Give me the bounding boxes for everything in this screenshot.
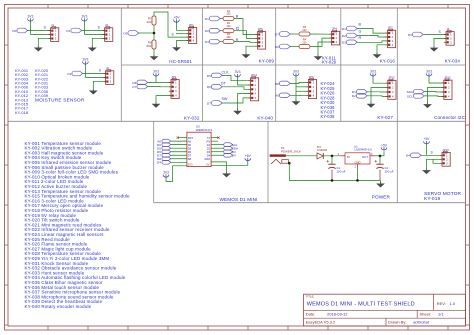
wire pin4 to gnd KY-016 [377, 45, 388, 54]
junction node HC-SR501 [153, 32, 156, 35]
title block Date [306, 311, 349, 316]
wire port to pin1 servo [421, 154, 442, 156]
port D1 KY-016 [342, 26, 357, 31]
svg-text:1N4004: 1N4004 [317, 148, 328, 152]
wire 3V3 down KY-032 [155, 76, 157, 83]
wire 3V3 down KY-024 [295, 76, 297, 101]
header JP7 KY-016 [385, 26, 395, 48]
port D6 KY-011 [275, 44, 290, 49]
label R3 150 [226, 33, 231, 39]
svg-text:IN: IN [347, 155, 350, 159]
header JP11 KY-040 [248, 73, 258, 101]
wire port to R1 [220, 18, 223, 20]
wire R4 to pin2 [310, 38, 332, 46]
svg-text:3V3: 3V3 [235, 70, 241, 74]
wire RST stub [178, 137, 187, 139]
svg-text:JP13: JP13 [444, 76, 451, 80]
capacitor C2 [375, 160, 384, 169]
port D7 KY-032 [132, 84, 147, 89]
svg-text:D5: D5 [188, 146, 192, 150]
wire D6 to R4 [290, 46, 299, 48]
svg-text:POWER_JACK: POWER_JACK [281, 150, 301, 154]
svg-text:JP10: JP10 [442, 148, 449, 152]
wire D6 to pin1 [148, 81, 172, 83]
power flag 3V3 U3 [163, 171, 169, 178]
svg-text:Drawn By:: Drawn By: [388, 320, 406, 325]
wire 3V3 J2 [84, 64, 86, 78]
svg-text:3V3: 3V3 [163, 171, 169, 175]
svg-text:2K2: 2K2 [147, 20, 152, 24]
svg-text:D7: D7 [275, 32, 279, 36]
title block Sheet [420, 311, 445, 316]
ground POWER [376, 182, 385, 188]
svg-text:JP7: JP7 [388, 26, 393, 30]
label SERVO MOTOR KY-019 [424, 191, 462, 202]
wire D7 to pin2 [148, 86, 172, 88]
wire U1 gnd [357, 169, 359, 181]
svg-text:KY-027: KY-027 [377, 115, 393, 120]
port D0 [12, 28, 27, 33]
svg-text:J3: J3 [105, 23, 108, 27]
port D3 KY-009 [205, 39, 220, 44]
svg-text:+5V: +5V [174, 16, 181, 20]
wire 3V3 to pin2 [238, 77, 251, 86]
label D4 1N4004 [317, 145, 328, 152]
svg-text:D6: D6 [188, 150, 192, 154]
svg-text:GND: GND [204, 157, 210, 161]
svg-text:D1: D1 [207, 143, 211, 147]
connector P1 power jack [270, 154, 289, 164]
resistor R3 [223, 40, 234, 44]
svg-text:D5: D5 [123, 31, 127, 35]
port D5 HC-SR501 [123, 31, 138, 36]
ground KY-011 [314, 55, 323, 61]
ground servo [422, 169, 431, 175]
label C1 100uF [337, 166, 346, 174]
svg-text:D7: D7 [207, 101, 211, 105]
svg-text:5V: 5V [206, 163, 209, 167]
svg-text:A0: A0 [275, 94, 279, 98]
svg-text:KY-034: KY-034 [445, 59, 461, 64]
svg-text:3V3: 3V3 [293, 69, 299, 73]
svg-text:3V3: 3V3 [27, 14, 33, 18]
wire pin3 to gnd J3 [92, 38, 104, 46]
label C2 100uF [385, 166, 394, 174]
svg-text:HC-SR501: HC-SR501 [169, 59, 192, 64]
svg-text:D1: D1 [342, 27, 346, 31]
wire pin4 to gnd HC-SR501 [177, 41, 189, 47]
svg-text:D4: D4 [406, 154, 410, 158]
wire D2 to pin4 KY-027 [367, 95, 388, 98]
node list moisture sensor KY numbers [15, 68, 85, 115]
svg-text:D3: D3 [342, 41, 346, 45]
wire D0 to pin1 J1 [28, 30, 51, 32]
svg-text:+5V: +5V [381, 143, 388, 147]
svg-text:WEMOS D1: WEMOS D1 [196, 128, 213, 132]
svg-text:100 uF: 100 uF [385, 170, 394, 174]
port D3 KY-016 [342, 40, 357, 45]
header JP13 I2C [442, 76, 452, 100]
port D6 KY-032 [132, 80, 147, 85]
svg-text:GND: GND [355, 160, 361, 164]
wire G to pin2 KY-016 [357, 36, 388, 38]
port D7 KY-011 [275, 32, 290, 37]
resistor R1 [223, 17, 234, 21]
big section boxes wemos power servo [154, 121, 466, 202]
wire SCL to pin4 [424, 95, 444, 98]
wire C1 to rail [331, 170, 333, 181]
port D1 [66, 28, 81, 33]
ground HC-SR501 right [172, 46, 181, 52]
op-amp U3 body [187, 132, 211, 166]
port D0 KY-024 [275, 81, 290, 86]
port D3 KY-034 [408, 32, 423, 37]
svg-text:JP12: JP12 [388, 76, 395, 80]
ground KY-024 [292, 100, 301, 106]
port D2 KY-016 [342, 33, 357, 38]
svg-text:D5: D5 [207, 74, 211, 78]
svg-text:KY-029: KY-029 [322, 60, 337, 65]
svg-text:D6: D6 [275, 45, 279, 49]
svg-text:R: R [236, 38, 239, 42]
wire CLK to pin1 [222, 75, 251, 80]
header JP10 servo [440, 148, 450, 166]
svg-text:D0: D0 [188, 143, 192, 147]
svg-text:EasyEDA V5.3.2: EasyEDA V5.3.2 [306, 320, 336, 325]
header J2 [103, 66, 113, 84]
svg-text:WEMOS D1 MINI: WEMOS D1 MINI [219, 197, 257, 202]
port D5 KY-040 [207, 73, 222, 78]
ground KY-009 [242, 53, 251, 59]
wire D2 to pin1 J2 [83, 73, 106, 75]
svg-text:OUT: OUT [362, 155, 368, 159]
header JP1 HC-SR501 [186, 23, 196, 44]
svg-text:KY-018: KY-018 [15, 110, 28, 115]
svg-text:KY-019: KY-019 [424, 196, 440, 202]
junction C2 top [379, 155, 382, 158]
resistor R2 [223, 29, 234, 33]
diode D4 [317, 153, 323, 159]
wire pin3 to gnd J1 [38, 38, 50, 46]
wire to C2 [379, 156, 381, 164]
header JP5 KY-009 [255, 27, 265, 49]
label R2 100 [226, 22, 231, 28]
ground KY-034 [430, 46, 439, 52]
node list KY-024 group [321, 81, 336, 119]
wire pin4 to gnd KY-009 [246, 46, 258, 53]
ground J2 [89, 89, 98, 95]
wire 3V3 to pin1 KY-027 [373, 76, 388, 84]
header J1 [48, 23, 58, 41]
wire SW to pin5 [222, 98, 251, 103]
port D2 KY-009 [205, 28, 220, 33]
svg-text:3V3: 3V3 [82, 57, 88, 61]
power flag +5V HC-SR501 [174, 16, 181, 23]
wire port to pin1 KY-034 [424, 34, 447, 36]
port SDA [407, 89, 425, 94]
ground J1 [34, 46, 43, 52]
ground KY-040 [233, 109, 242, 115]
wire pin2 J2 [85, 76, 105, 78]
wire TX stub [211, 137, 218, 139]
section grid lines [8, 8, 466, 121]
svg-text:KY-032: KY-032 [184, 116, 200, 121]
label U1 LM2940P-5.0 [354, 145, 372, 152]
svg-text:1/1: 1/1 [438, 311, 444, 316]
wire pin2 to gnd KY-034 [434, 38, 446, 47]
wire port to R3 [220, 41, 223, 43]
svg-text:D0: D0 [275, 82, 279, 86]
junction C1 top [331, 155, 334, 158]
svg-text:JP4: JP4 [332, 27, 337, 31]
wire ground rail [289, 179, 380, 181]
port D2 [67, 71, 82, 76]
svg-text:TX: TX [207, 136, 211, 140]
svg-text:Date:: Date: [306, 311, 316, 316]
ports U3 left [157, 139, 187, 164]
ground U3 [222, 172, 231, 178]
svg-text:100: 100 [226, 25, 231, 28]
svg-text:3V3: 3V3 [370, 69, 376, 73]
svg-text:KY-038: KY-038 [321, 114, 336, 119]
svg-text:KY-040: KY-040 [257, 116, 273, 121]
svg-text:D4: D4 [207, 153, 211, 157]
port D4 servo [406, 153, 421, 158]
wire pin2 to gnd servo [427, 159, 443, 169]
svg-text:LM2940P-5.0: LM2940P-5.0 [355, 148, 373, 152]
svg-text:3V3: 3V3 [153, 69, 159, 73]
header JP12 KY-027 [386, 76, 396, 100]
wire jack to diode [286, 155, 317, 157]
wire D1 to pin1 J3 [82, 30, 105, 32]
wire +5V riser [383, 151, 385, 156]
wire pin2 KY-024 [296, 86, 308, 88]
svg-text:100: 100 [226, 13, 231, 16]
power flag 3V3 KY-040 [235, 70, 241, 77]
svg-text:D2: D2 [342, 34, 346, 38]
port A0 KY-024 [275, 93, 290, 98]
wire diode to U1 [323, 155, 340, 157]
wire C2 to rail [379, 170, 381, 181]
svg-text:100 uF: 100 uF [337, 170, 346, 174]
svg-text:JP2: JP2 [171, 75, 176, 79]
wire pin2 to gnd KY-027 [371, 88, 388, 103]
svg-text:D0: D0 [12, 29, 16, 33]
power flag +5V POWER [381, 143, 388, 150]
header J4 KY-034 [444, 27, 454, 45]
svg-text:DT: DT [221, 82, 227, 86]
wire DT to pin3 [222, 87, 251, 90]
wire pin3 to gnd J2 [93, 81, 105, 89]
label R4 220 [302, 38, 307, 44]
wire pin3 KY-024 [296, 90, 308, 92]
header JP2 KY-032 [169, 75, 179, 99]
port D6 KY-040 [207, 85, 222, 90]
svg-text:POWER: POWER [372, 195, 391, 200]
header JP6 KY-024 [306, 75, 316, 99]
svg-text:A0: A0 [188, 139, 192, 143]
svg-text:3V3: 3V3 [188, 163, 193, 167]
pin names U3 [188, 136, 211, 167]
svg-text:D7: D7 [188, 153, 192, 157]
ground KY-016 [373, 53, 382, 59]
svg-text:JP6: JP6 [309, 75, 314, 79]
wire R7 top to header [154, 12, 189, 37]
svg-text:D8: D8 [188, 157, 192, 161]
ground KY-032 [152, 102, 161, 108]
regulator U1 [338, 153, 375, 169]
ports U3 right [211, 143, 238, 158]
svg-text:D7: D7 [132, 85, 136, 89]
svg-text:D4: D4 [232, 154, 236, 158]
svg-text:SW: SW [222, 97, 228, 101]
svg-text:WEMOS D1 MINI - MULTI TEST SHI: WEMOS D1 MINI - MULTI TEST SHIELD [307, 302, 415, 308]
svg-text:JP11: JP11 [251, 73, 258, 77]
port D1 KY-027 [352, 90, 367, 95]
wire RX stub [211, 140, 218, 142]
svg-text:D3: D3 [207, 150, 211, 154]
svg-text:CLK: CLK [222, 71, 230, 75]
wire pin2 to gnd I2C [428, 88, 444, 104]
wire rail to gnd [380, 180, 382, 183]
header JP4 KY-011 [329, 27, 339, 45]
wire pin4 to gnd KY-032 [156, 96, 171, 103]
svg-text:D3: D3 [205, 40, 209, 44]
svg-text:adrirobot: adrirobot [413, 320, 430, 325]
wire R to pin3 [234, 41, 258, 44]
wire D5 to node [139, 32, 155, 34]
svg-text:TITLE:: TITLE: [306, 295, 315, 299]
svg-text:+5V: +5V [424, 137, 431, 141]
label R6 8K2 [147, 41, 152, 49]
svg-text:D2: D2 [205, 29, 209, 33]
svg-text:1.0: 1.0 [450, 301, 456, 306]
port SCL [407, 94, 424, 99]
wire A0 to pin4 [290, 94, 308, 96]
no-connect x TX [217, 136, 219, 138]
wire R7-R6 node [153, 25, 155, 40]
svg-text:D2: D2 [67, 72, 71, 76]
power flag 3V3 J1 [27, 14, 33, 21]
label R5 220 [302, 26, 307, 32]
power flag 3V3 J3 [81, 14, 87, 21]
power flag 3V3 J2 [82, 57, 88, 64]
wire GND U3 [211, 162, 226, 173]
wire 3V3 J3 [83, 21, 85, 35]
svg-text:JP5: JP5 [258, 27, 263, 31]
svg-text:220: 220 [302, 41, 307, 44]
no-connect x RST [177, 136, 179, 138]
svg-text:2018-03-12: 2018-03-12 [327, 311, 348, 316]
svg-text:KY-009: KY-009 [259, 59, 275, 64]
wire pin2 J3 [84, 33, 104, 35]
svg-text:J1: J1 [51, 23, 54, 27]
svg-text:D4: D4 [157, 161, 161, 165]
svg-text:G: G [359, 29, 362, 33]
wire R6 to gnd [153, 49, 155, 56]
node list KY module descriptions [25, 141, 131, 309]
title block REV [437, 301, 456, 306]
svg-text:KY-040 Rotary encoder module: KY-040 Rotary encoder module [25, 304, 92, 309]
svg-text:SCL: SCL [407, 94, 413, 98]
svg-text:J4: J4 [446, 27, 449, 31]
power flag +5V U3 [245, 154, 252, 161]
svg-text:+5V: +5V [245, 154, 252, 158]
wire SDA to pin3 [424, 91, 444, 93]
wire D0 to pin1 [290, 82, 308, 83]
wire +5V servo [426, 144, 428, 156]
svg-text:R: R [359, 36, 362, 40]
title block frame [304, 294, 466, 326]
wire B to pin1 [234, 19, 258, 35]
svg-text:D1: D1 [66, 29, 70, 33]
ground J3 [88, 46, 97, 52]
ground I2C [423, 103, 432, 109]
ground KY-027 [367, 102, 376, 108]
svg-text:D2: D2 [352, 94, 356, 98]
svg-text:JP1: JP1 [189, 23, 194, 27]
junction rail C1 [331, 179, 334, 182]
wire S to pin2 [176, 33, 189, 35]
wire G to pin2 [234, 31, 258, 39]
wire 3V3 J1 [29, 21, 31, 35]
wire R5 to pin1 [310, 33, 332, 35]
wire D7 to R5 [290, 33, 299, 35]
power flag 3V3 KY-032 [153, 69, 159, 76]
svg-text:Connector I2C: Connector I2C [434, 115, 466, 120]
wire to C1 [331, 156, 333, 164]
power flag 3V3 I2C [426, 69, 432, 76]
wire 3V3 U3 [166, 166, 187, 182]
wire pin3 to gnd KY-011 [318, 42, 332, 56]
junction jack bottom [288, 162, 291, 165]
wire U1 out [375, 155, 384, 157]
label KY-011 KY-029 [322, 55, 337, 64]
svg-text:D3: D3 [408, 33, 412, 37]
svg-text:KY-016: KY-016 [380, 59, 396, 64]
svg-text:Sheet:: Sheet: [420, 311, 432, 316]
svg-text:3V3: 3V3 [81, 14, 87, 18]
svg-text:3V3: 3V3 [426, 69, 432, 73]
ground R6 [150, 55, 159, 61]
svg-text:RST: RST [188, 136, 194, 140]
capacitor C1 [327, 160, 336, 169]
wire B to pin1 KY-016 [357, 29, 388, 34]
wire R to pin3 KY-016 [357, 41, 388, 42]
resistor R5 [299, 32, 310, 36]
svg-text:RX: RX [206, 139, 210, 143]
wire 5V U3 to +5V [211, 160, 248, 165]
svg-text:D2: D2 [207, 146, 211, 150]
wire port to R2 [220, 30, 223, 32]
svg-text:220: 220 [302, 29, 307, 32]
title block DrawnBy [388, 320, 430, 325]
svg-text:D6: D6 [207, 85, 211, 89]
resistor R4 [299, 45, 310, 49]
svg-text:150: 150 [226, 36, 231, 39]
wire jack bottom [288, 163, 290, 180]
header J3 [102, 23, 112, 41]
svg-text:G: G [236, 26, 240, 31]
label R1 100 [226, 10, 231, 16]
svg-text:D1: D1 [205, 17, 209, 21]
resistor R6 [152, 40, 156, 49]
wire pin3 servo [433, 159, 442, 163]
resistor R7 [152, 16, 156, 25]
wire pin4 to gnd KY-040 [238, 94, 251, 110]
svg-text:J2: J2 [106, 66, 109, 70]
svg-text:REV:: REV: [437, 301, 446, 306]
